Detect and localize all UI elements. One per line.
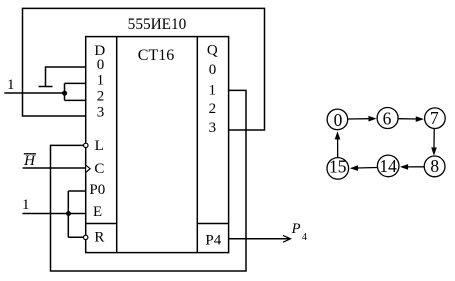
svg-text:1: 1 [97, 73, 105, 89]
node 7 [425, 108, 446, 129]
svg-text:Q: Q [207, 43, 218, 59]
pin bubble L (active low) [84, 143, 88, 147]
svg-text:P: P [291, 221, 301, 237]
svg-text:2: 2 [209, 101, 217, 117]
node 14 [377, 155, 399, 177]
wire logic-1 input to P0/E/R [22, 191, 85, 237]
IC right pin-field separator [196, 37, 198, 253]
svg-text:2: 2 [97, 88, 105, 104]
transition arrow 6 to 7 [398, 118, 417, 120]
clock edge triangle on pin C [86, 165, 90, 172]
node 15 [327, 158, 349, 180]
transition arrow 0 to 6 [348, 118, 370, 120]
svg-text:1: 1 [22, 197, 30, 213]
svg-text:E: E [93, 204, 102, 220]
arrowhead P4 [283, 235, 291, 242]
svg-text:R: R [94, 229, 104, 245]
IC cell separator above R [86, 223, 117, 225]
transition arrow 15 to 0 [337, 138, 339, 157]
svg-text:3: 3 [209, 120, 217, 136]
junction E node [66, 211, 71, 216]
svg-text:555ИЕ10: 555ИЕ10 [128, 16, 187, 33]
svg-text:L: L [95, 138, 104, 154]
junction D1/D2 [62, 91, 67, 96]
svg-text:P4: P4 [205, 232, 221, 248]
pin bubble R (active low) [84, 235, 88, 239]
wire logic-1 input to D1/D2 [4, 83, 85, 100]
ground (logic 0 tie on D0) [39, 67, 86, 87]
node 8 [424, 156, 445, 177]
IC left pin-field separator [116, 37, 118, 253]
svg-text:H: H [23, 153, 36, 169]
wire feedback loop Q1 to L (bottom) [51, 90, 247, 271]
transition arrow 14 to 15 [357, 167, 378, 170]
IC U1 counter body [86, 37, 229, 253]
svg-text:0: 0 [97, 57, 105, 73]
svg-text:7: 7 [430, 108, 439, 128]
wire clock input H to C [23, 167, 86, 169]
svg-text:0: 0 [209, 62, 217, 78]
svg-text:14: 14 [379, 156, 397, 176]
svg-text:4: 4 [302, 232, 307, 243]
svg-text:C: C [94, 161, 104, 177]
wire feedback loop Q3 to D3 (top) [23, 8, 265, 130]
svg-text:0: 0 [334, 110, 343, 130]
svg-text:6: 6 [383, 108, 392, 128]
svg-text:8: 8 [430, 156, 439, 176]
svg-text:CT16: CT16 [138, 47, 174, 64]
IC cell separator above P4 [197, 223, 228, 225]
svg-text:P0: P0 [89, 182, 105, 198]
transition arrow 8 to 14 [407, 166, 424, 168]
svg-text:1: 1 [7, 77, 15, 93]
svg-text:15: 15 [329, 157, 347, 177]
node 0 [327, 109, 348, 130]
svg-text:3: 3 [97, 105, 105, 121]
node 6 [377, 108, 398, 129]
transition arrow 7 to 8 [433, 129, 435, 149]
svg-text:1: 1 [209, 82, 217, 98]
wire output P4 [229, 238, 290, 240]
